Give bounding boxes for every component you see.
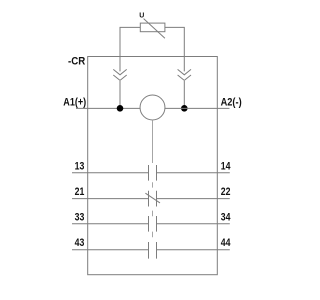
svg-text:A2(-): A2(-) — [221, 97, 242, 109]
wire varistor right branch — [165, 27, 184, 71]
wire right connector to node on A2 rail — [183, 81, 185, 108]
svg-text:44: 44 — [221, 237, 231, 249]
mechanical link dash 13-21 — [152, 182, 154, 187]
wire varistor left branch — [120, 27, 140, 71]
svg-text:-CR: -CR — [68, 55, 85, 67]
svg-text:33: 33 — [75, 211, 85, 223]
contact 43-44 NO — [149, 242, 157, 259]
contact 21-22 NC — [145, 191, 160, 207]
wire terminal 21 — [72, 198, 149, 200]
svg-text:43: 43 — [75, 237, 85, 249]
coil K1 — [140, 95, 165, 120]
varistor RU body — [140, 19, 165, 39]
plug-in connector chevron left — [113, 69, 126, 80]
mechanical link dash 33-43 — [152, 232, 154, 238]
wire terminal 33 — [72, 223, 149, 225]
wire terminal 34 — [157, 223, 230, 225]
wire terminal 14 — [157, 172, 230, 174]
junction node left — [117, 105, 124, 112]
wire terminal 13 — [72, 172, 149, 174]
junction node right — [181, 105, 188, 112]
relay outline box -CR — [88, 57, 218, 275]
wire terminal 43 — [72, 249, 149, 251]
svg-text:A1(+): A1(+) — [63, 97, 86, 109]
wire terminal 22 — [157, 198, 230, 200]
plug-in connector chevron right — [178, 69, 191, 80]
svg-text:21: 21 — [75, 186, 85, 198]
mechanical link from coil — [152, 120, 154, 163]
wire terminal A1 to coil — [76, 107, 140, 109]
svg-text:22: 22 — [221, 186, 231, 198]
svg-text:14: 14 — [221, 160, 231, 172]
contact 13-14 NO — [149, 165, 157, 181]
svg-text:13: 13 — [75, 160, 85, 172]
svg-text:34: 34 — [221, 211, 231, 223]
wire left connector to node on A1 rail — [119, 81, 121, 108]
wire terminal 44 — [157, 249, 230, 251]
svg-text:U: U — [139, 12, 144, 19]
mechanical link dash 21-33 — [152, 211, 154, 217]
wire coil to terminal A2 — [165, 107, 230, 109]
contact 33-34 NO — [149, 216, 157, 232]
